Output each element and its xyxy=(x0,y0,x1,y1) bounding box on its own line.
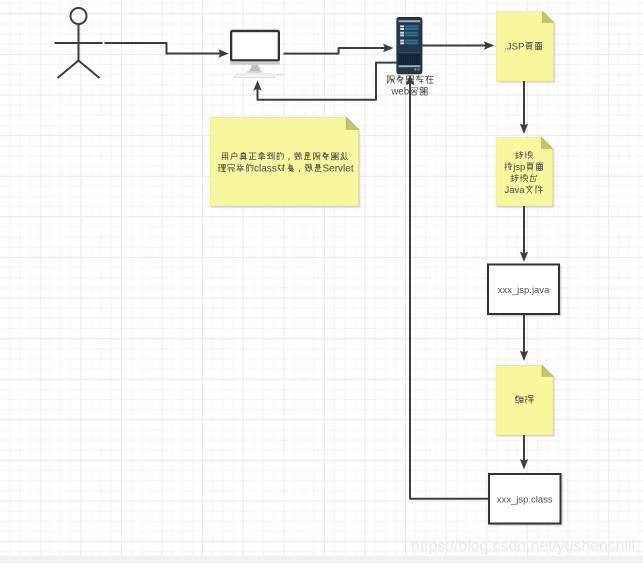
monitor (user computer) xyxy=(230,30,283,78)
wire class box to server (load servlet) xyxy=(406,75,489,499)
box: xxx_jsp.class xyxy=(489,474,561,524)
svg-text:web: web xyxy=(390,87,409,98)
svg-text:class: class xyxy=(254,164,277,175)
note: 转换/将jsp页面/转换为/Java文件 xyxy=(496,138,553,207)
wire java box to compile note xyxy=(520,315,528,362)
box: xxx_jsp.java xyxy=(488,265,559,315)
wire JSP note to convert note xyxy=(520,81,528,134)
svg-text:xxx_jsp.class: xxx_jsp.class xyxy=(497,495,553,506)
wire actor to monitor xyxy=(105,43,229,58)
server tower (web container) xyxy=(397,17,422,73)
actor (user stick figure) xyxy=(55,8,103,78)
svg-text:Servlet: Servlet xyxy=(323,164,354,175)
wire convert note to java box xyxy=(520,206,528,262)
note: explanation (user gets processed class object = Servlet) xyxy=(210,117,358,206)
svg-text:jsp: jsp xyxy=(512,162,525,173)
wire server to monitor (response) xyxy=(253,63,396,100)
svg-text:xxx_jsp.java: xxx_jsp.java xyxy=(498,285,550,296)
wire monitor to server xyxy=(284,44,394,54)
wire server to JSP page note xyxy=(422,41,494,49)
svg-text:https://blog.csdn.net/yushensh: https://blog.csdn.net/yushenshili xyxy=(411,538,635,555)
bottom strip xyxy=(0,556,643,563)
svg-text:.JSP: .JSP xyxy=(504,41,524,52)
svg-text:Java: Java xyxy=(505,185,526,196)
wire compile note to class box xyxy=(520,435,528,470)
server label: 服务器存在 web容器 xyxy=(387,75,433,97)
note: 编译 xyxy=(496,365,553,435)
note: JSP页面 xyxy=(497,12,554,82)
